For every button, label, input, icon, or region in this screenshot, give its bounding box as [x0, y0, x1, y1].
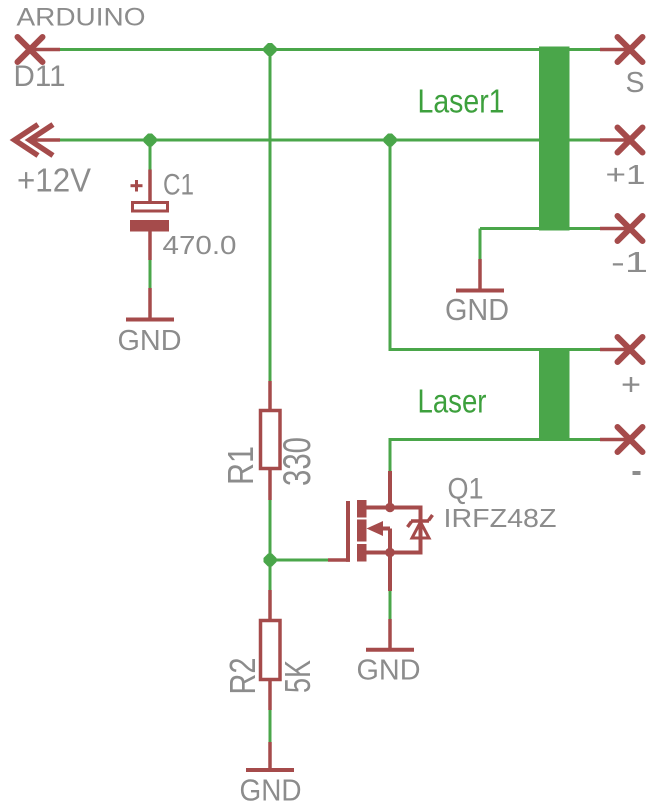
- body diode vertical branch: [419, 506, 423, 555]
- pin X mark Laser -: [618, 427, 643, 452]
- junction dot node +12V/Laser+: [384, 134, 397, 147]
- svg-text:470.0: 470.0: [163, 230, 237, 260]
- connector Laser green body: [539, 349, 570, 441]
- wire C1 bottom to GND: [149, 259, 152, 289]
- connector Laser1 green body: [539, 47, 570, 231]
- svg-text:ARDUINO: ARDUINO: [17, 4, 146, 32]
- ground GND -1 pin: [478, 259, 482, 290]
- pin stub +1: [600, 138, 630, 142]
- svg-text:Laser: Laser: [418, 382, 487, 419]
- pin stub Laser -: [600, 438, 630, 442]
- svg-text:Laser1: Laser1: [418, 82, 505, 119]
- wire Q1 source to GND: [389, 590, 392, 620]
- svg-text:330: 330: [276, 437, 319, 486]
- svg-text:IRFZ48Z: IRFZ48Z: [444, 503, 557, 533]
- transistor Q1 channel bar body: [357, 520, 367, 542]
- pin label -: [633, 471, 641, 475]
- junction dot node R1/R2/gate: [264, 554, 277, 567]
- svg-text:+1: +1: [606, 159, 646, 190]
- wire junction to R2: [269, 560, 272, 591]
- transistor Q1 drain junction dot: [385, 503, 395, 513]
- wire -1 drop to GND: [479, 229, 482, 261]
- pin stub D11: [30, 48, 60, 52]
- svg-text:C1: C1: [163, 169, 194, 202]
- pin X mark -1: [618, 216, 643, 241]
- junction dot node +12V/C1: [144, 134, 157, 147]
- svg-text:+12V: +12V: [17, 161, 91, 198]
- wire Laser1 -1 horizontal: [480, 227, 602, 230]
- pin stub Laser +: [600, 348, 630, 352]
- svg-text:GND: GND: [118, 325, 182, 357]
- ground GND R2 pin: [268, 742, 272, 769]
- resistor R2 body: [261, 621, 281, 680]
- transistor Q1 source lead: [365, 551, 421, 555]
- ground GND R2 bar: [246, 768, 294, 772]
- svg-text:R1: R1: [220, 446, 261, 485]
- svg-text:GND: GND: [357, 655, 421, 687]
- pin X mark Laser +: [618, 337, 643, 362]
- ground GND Q1 pin: [388, 619, 392, 649]
- svg-text:R2: R2: [222, 658, 263, 695]
- capacitor C1 bottom pin: [148, 232, 152, 261]
- transistor Q1 gate line: [346, 501, 350, 562]
- capacitor C1 plus sign: [131, 180, 143, 192]
- svg-text:5K: 5K: [277, 660, 318, 693]
- wire gate horizontal: [270, 559, 330, 562]
- wire Laser - horizontal: [389, 438, 603, 441]
- resistor R2 top pin: [268, 590, 272, 620]
- svg-text:GND: GND: [445, 292, 509, 327]
- ground GND Q1 bar: [366, 648, 414, 652]
- transistor Q1 source junction dot: [385, 548, 395, 558]
- svg-text:Q1: Q1: [448, 473, 484, 506]
- pin stub +12V: [28, 138, 60, 142]
- svg-text:-1: -1: [611, 247, 648, 279]
- pin X mark +1: [618, 128, 643, 153]
- wire +12V branch vertical to Laser +: [389, 140, 392, 351]
- wire Laser - drop to Q1 drain: [389, 440, 392, 473]
- svg-text:+: +: [621, 367, 641, 402]
- transistor Q1 drain pin vertical: [388, 471, 392, 508]
- transistor Q1 source pin vertical: [388, 553, 392, 592]
- wire R1 bottom to junction: [269, 499, 272, 560]
- capacitor C1 top plate: [133, 203, 168, 212]
- wire net +12V horizontal: [58, 139, 602, 142]
- transistor Q1 gate pin: [328, 558, 350, 562]
- body diode cathode flag right: [429, 515, 433, 521]
- pin X mark D11: [18, 37, 43, 62]
- svg-text:GND: GND: [240, 773, 302, 808]
- transistor Q1 body lead: [381, 527, 390, 531]
- ground GND C1 bar: [126, 318, 174, 322]
- wire Laser + horizontal: [389, 348, 603, 351]
- capacitor C1 top pin: [148, 170, 152, 203]
- wire C1 top drop: [149, 140, 152, 171]
- ground GND C1 pin: [148, 288, 152, 319]
- resistor R1 body: [261, 411, 281, 469]
- svg-text:D11: D11: [14, 60, 66, 93]
- transistor Q1 channel bar drain: [357, 500, 367, 518]
- resistor R1 top pin: [268, 381, 272, 410]
- svg-text:S: S: [626, 67, 645, 99]
- transistor Q1 channel bar source: [357, 544, 367, 562]
- pin X mark S: [618, 37, 643, 62]
- body diode cathode flag left: [408, 522, 412, 528]
- supply arrow +12V: [15, 125, 53, 156]
- junction dot node D11/R1: [264, 43, 277, 56]
- pin stub -1: [600, 227, 630, 231]
- ground GND -1 bar: [456, 289, 504, 293]
- transistor Q1 body to source vertical: [388, 529, 392, 553]
- wire net D11 vertical drop to R1: [269, 50, 272, 383]
- body diode cathode bar: [411, 519, 429, 523]
- transistor Q1 body arrow: [367, 521, 384, 536]
- pin stub S: [600, 48, 630, 52]
- body diode anode triangle: [412, 522, 429, 538]
- wire net D11 top horizontal: [58, 48, 602, 51]
- capacitor C1 bottom plate: [130, 220, 169, 232]
- transistor Q1 drain lead: [365, 506, 421, 510]
- resistor R1 bottom pin: [268, 469, 272, 501]
- resistor R2 bottom pin: [268, 680, 272, 711]
- wire R2 bottom to GND: [269, 709, 272, 743]
